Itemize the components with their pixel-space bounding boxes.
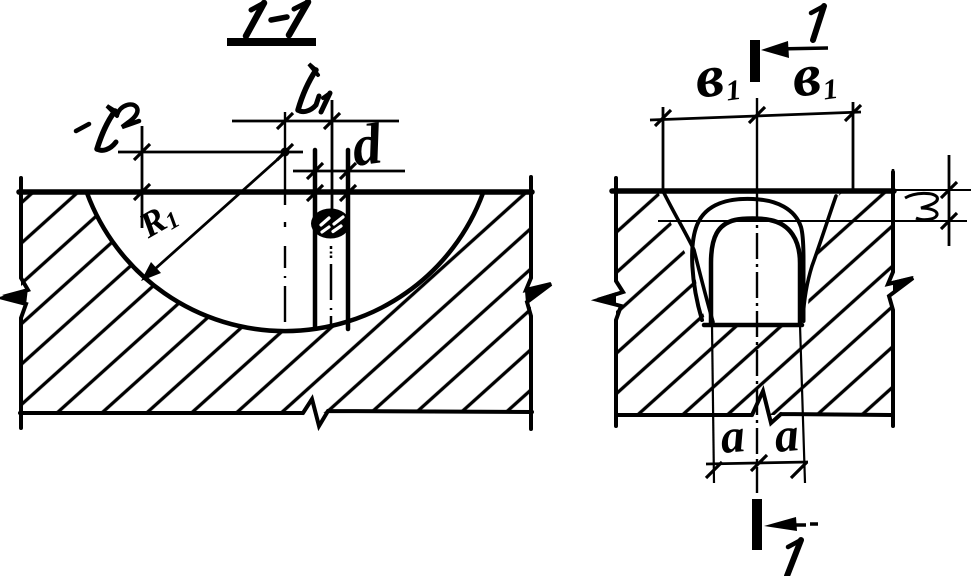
svg-text:a: a [772, 408, 801, 463]
svg-text:a: a [718, 409, 747, 464]
